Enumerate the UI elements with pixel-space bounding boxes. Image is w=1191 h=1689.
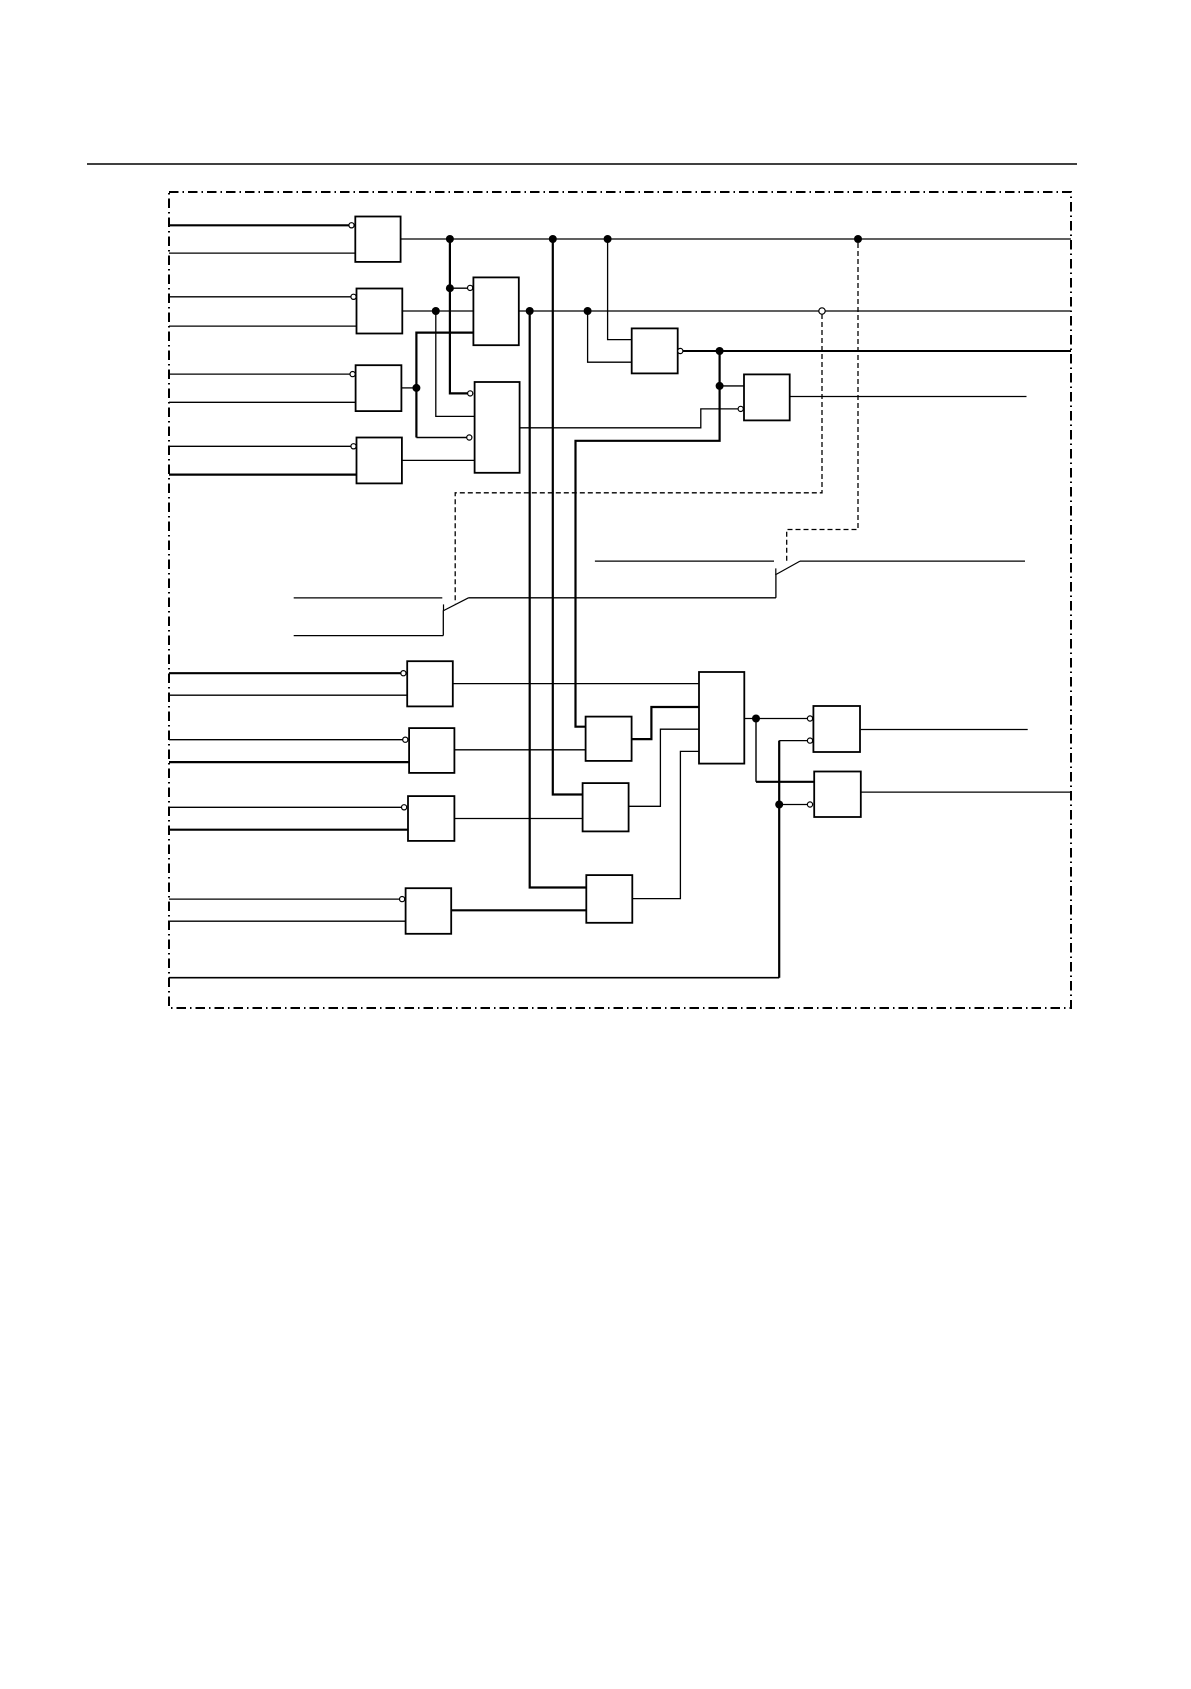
bubble at 680.3,351.0 [678, 348, 683, 353]
open tap circle on rail2 [819, 308, 825, 314]
bubble at 469.3,437.5 [467, 435, 472, 440]
bubble at 353.5,446.3 [351, 444, 356, 449]
gate L4 [406, 888, 452, 934]
wire SW2 pole riser [775, 575, 777, 598]
gate U6 [475, 382, 520, 473]
wire rail3 U7 output [683, 350, 1071, 352]
wire L4 output to M3 input2 [451, 909, 586, 911]
wire G3 output [401, 387, 416, 389]
wire feedback vertical [778, 741, 780, 978]
junction at 449.9,239 [446, 235, 454, 243]
wire vertical rail1 to U7 input1 [608, 239, 632, 340]
junction at 416.4,387.9 [412, 384, 420, 392]
wire G3 net to U5 input3 [416, 333, 473, 438]
junction at 435.8,311 [432, 307, 440, 315]
wire vertical rail1 to M2 input [553, 239, 583, 795]
junction at 607.6,239 [604, 235, 612, 243]
wire L2 output to M1 input2 [454, 749, 585, 751]
wire input G4 pin1 [169, 445, 351, 447]
bubble at 810.0,740.6 [807, 738, 812, 743]
junction at 719.6,351 [716, 347, 724, 355]
wire input L3 pin2 [169, 829, 408, 831]
junction at 587.6,311 [584, 307, 592, 315]
wire input G4 pin2 [169, 474, 357, 476]
wire L1 output to BG input1 [453, 683, 699, 685]
wire U7 output down to M1 input [576, 351, 720, 727]
wire M2 output to BG input3 [629, 729, 699, 806]
wire vertical rail2 to M3 input [530, 311, 587, 888]
wire input G2 pin1 [169, 296, 351, 298]
gate U8 [744, 374, 790, 420]
wire thick into R2 input1 [756, 781, 814, 783]
gate U7 [632, 328, 678, 373]
bubble at 810.0,718.5 [807, 716, 812, 721]
gate L3 [408, 796, 454, 841]
bubble at 740.7,408.9 [738, 406, 743, 411]
wire SW1 lower contact [294, 635, 444, 637]
wire M3 output to BG input4 [632, 751, 699, 898]
wire stub to U5 bubble [450, 287, 468, 289]
bubble at 351.5,225.3 [349, 223, 354, 228]
wire G2 output to U5 [402, 310, 473, 312]
junction at 449.9,288.2 [446, 284, 454, 292]
wire SW1 pole riser [442, 611, 444, 636]
wire input G3 pin1 [169, 373, 350, 375]
wire stub to U8 input1 [720, 385, 744, 387]
bubble at 402.1,899.1 [400, 897, 405, 902]
wire input L2 pin2 [169, 761, 409, 763]
wire BG output branch down [755, 719, 757, 782]
bubble at 404.1,807.3 [402, 805, 407, 810]
bubble at 403.4,673.2 [401, 671, 406, 676]
bubble at 470.1,287.9 [468, 285, 473, 290]
wire stub to R2 bubble2 [779, 804, 807, 806]
wire G4 output to U6 input4 [402, 459, 475, 461]
gate M3 [586, 875, 632, 923]
wire U8 output [790, 396, 1027, 398]
gate G4 [357, 438, 402, 484]
bubble at 810.0,804.5 [807, 802, 812, 807]
wire R2 output [861, 791, 1071, 793]
bubble at 353.5,296.8 [351, 294, 356, 299]
wire stub to R1 bubble2 [779, 740, 807, 742]
wire feedback net bottom [169, 977, 779, 979]
wire R1 output [861, 729, 1028, 731]
junction at 858,239 [854, 235, 862, 243]
wire SW2 output [800, 560, 1025, 562]
wire input G2 pin2 [169, 325, 357, 327]
wire input L1 pin1 [169, 672, 401, 674]
junction at 529.7,311 [526, 307, 534, 315]
wire input G3 pin2 [169, 401, 356, 403]
bubble at 352.6,374.1 [350, 372, 355, 377]
wire SW1 upper contact [294, 597, 443, 599]
wire M1 output to BG input2 [632, 707, 699, 739]
dashed control net to SW1 [455, 314, 822, 603]
SW2 contact tick [775, 568, 777, 575]
page header rule [87, 163, 1077, 165]
gate R1 [813, 706, 860, 752]
wire rail1 G1 output [401, 238, 1071, 240]
junction at 779.2,804.5 [775, 801, 783, 809]
wire input G1 pin1 [169, 224, 349, 226]
wire input L4 pin2 [169, 920, 406, 922]
wire L3 output to M2 input2 [454, 818, 582, 820]
dashed control net to SW2 [787, 243, 858, 564]
wire SW2 upper contact [595, 560, 774, 562]
wire vertical rail2 to U6 input2 [436, 311, 475, 416]
wire rail2 U5 output [519, 310, 1071, 312]
wire U6 output to U8 input2 [520, 409, 739, 428]
wire input L1 pin2 [169, 694, 407, 696]
wire stub to U6 bubble3 [416, 437, 466, 439]
switch SW2 arm [775, 561, 800, 575]
SW1 contact tick [443, 604, 445, 611]
wire BG output to R1 input1 [744, 718, 807, 720]
gate U5 [473, 277, 518, 345]
switch SW1 arm [443, 598, 469, 611]
wire input L4 pin1 [169, 898, 400, 900]
junction at 719.6,385.9 [716, 382, 724, 390]
gate L1 [407, 661, 453, 706]
gate BG [699, 672, 744, 764]
wire vertical from rail1 to U6 bubble [450, 239, 468, 393]
boundary dash-dot box [169, 192, 1071, 1008]
gate L2 [409, 728, 454, 773]
wire input L3 pin1 [169, 806, 402, 808]
bubble at 470.2,393.4 [468, 391, 473, 396]
bubble at 405.3,739.7 [403, 737, 408, 742]
gate G3 [356, 365, 402, 411]
gate M1 [586, 717, 632, 761]
wire input L2 pin1 [169, 739, 403, 741]
wire SW1 output to SW2 pole [469, 597, 776, 599]
gate R2 [814, 772, 861, 818]
wire vertical rail2 to U7 input2 [588, 311, 632, 362]
gate G1 [355, 217, 400, 262]
junction at 552.8,239 [549, 235, 557, 243]
gate M2 [583, 783, 629, 831]
gate G2 [357, 289, 403, 334]
junction at 756,718.5 [752, 715, 760, 723]
wire input G1 pin2 [169, 252, 355, 254]
